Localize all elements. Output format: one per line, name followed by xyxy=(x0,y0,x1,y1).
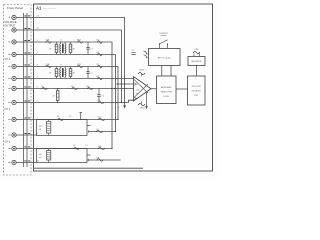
svg-text:-: - xyxy=(9,28,10,32)
svg-text:ADDR AND: ADDR AND xyxy=(161,86,172,89)
svg-text:1W: 1W xyxy=(39,157,42,159)
svg-text:F1B: F1B xyxy=(77,40,81,42)
svg-text:ZERO: ZERO xyxy=(140,108,146,110)
svg-text:VOLTAGE: VOLTAGE xyxy=(4,20,17,24)
svg-text:+: + xyxy=(8,16,10,20)
svg-text:CH 2: CH 2 xyxy=(5,108,11,111)
svg-text:OUTPUT: OUTPUT xyxy=(4,24,15,28)
svg-text:F1A: F1A xyxy=(46,39,50,42)
svg-text:1W: 1W xyxy=(39,129,42,131)
svg-text:GAIN: GAIN xyxy=(139,69,144,72)
svg-text:RLY TO 4-20: RLY TO 4-20 xyxy=(158,57,171,59)
svg-text:REGULATOR: REGULATOR xyxy=(191,60,202,63)
svg-text:SELECTION: SELECTION xyxy=(161,92,173,94)
svg-text:F1A: F1A xyxy=(46,63,50,66)
svg-text:CH 1: CH 1 xyxy=(5,58,11,61)
svg-text:4-20 LOOP: 4-20 LOOP xyxy=(192,86,202,88)
svg-text:LOGIC: LOGIC xyxy=(163,96,170,98)
svg-text:A1: A1 xyxy=(36,6,42,11)
svg-text:From Panel: From Panel xyxy=(7,6,23,10)
svg-text:OUTPUT: OUTPUT xyxy=(159,33,168,35)
svg-text:xxx: xxx xyxy=(136,93,139,95)
svg-text:ISOLATOR: ISOLATOR xyxy=(192,90,202,93)
svg-text:F1B: F1B xyxy=(77,64,81,66)
svg-text:—— ———: —— ——— xyxy=(43,7,57,10)
svg-text:xxxx: xxxx xyxy=(136,89,140,91)
svg-text:CH 3: CH 3 xyxy=(5,141,11,144)
svg-text:TP1: TP1 xyxy=(131,50,134,52)
